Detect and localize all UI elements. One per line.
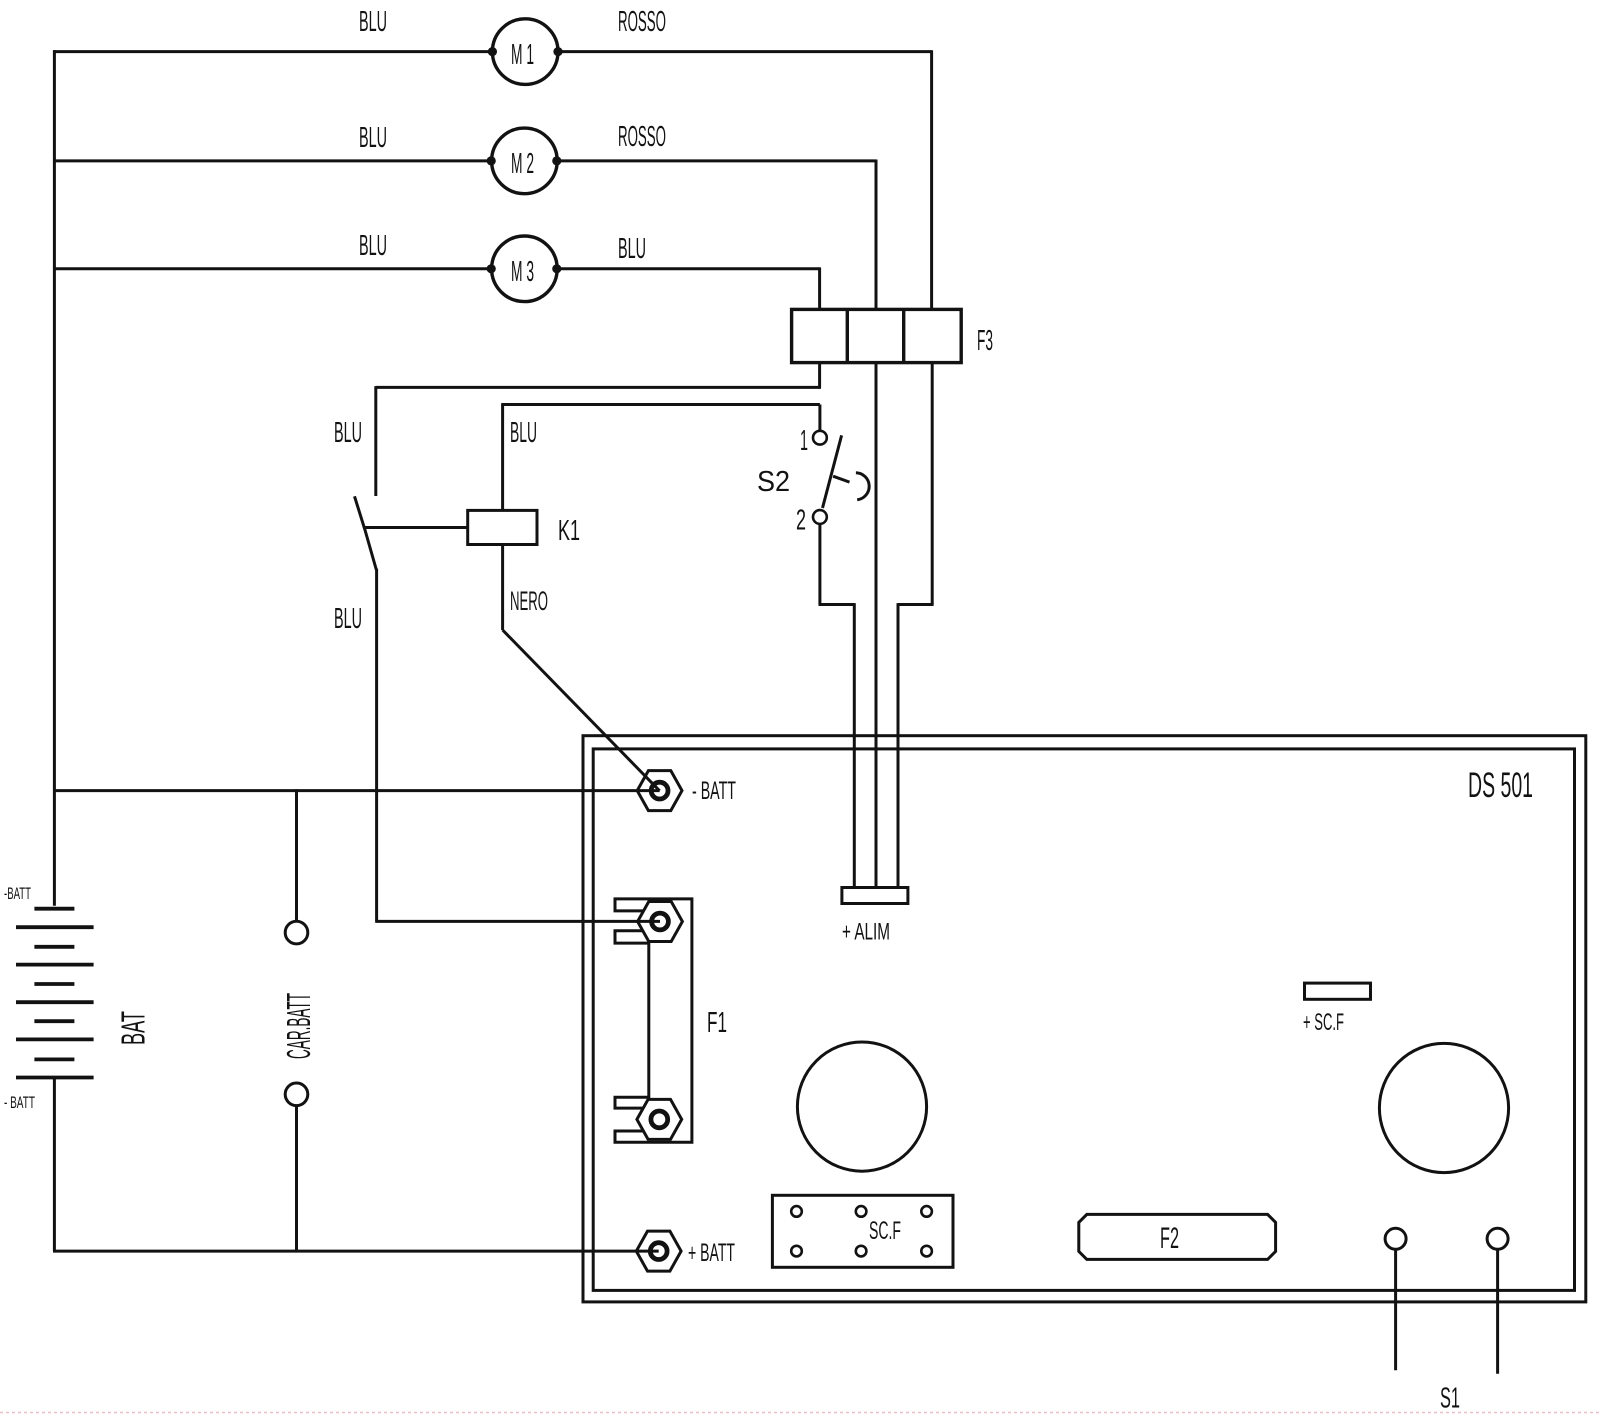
wire: M2 left (BLU) <box>53 159 491 162</box>
K1 contact blade <box>355 496 377 570</box>
wire: F3 cell1 bottom stub <box>818 363 821 388</box>
wire: CAR.BATT upper <box>295 789 298 921</box>
svg-text:NERO: NERO <box>510 586 548 616</box>
svg-text:CAR.BATT: CAR.BATT <box>280 993 317 1059</box>
svg-text:ROSSO: ROSSO <box>618 6 666 38</box>
DS 501 unit box outer border <box>583 736 1586 1302</box>
motor M1 <box>488 19 563 85</box>
wire: M3 right (BLU) <box>557 267 820 270</box>
svg-text:BLU: BLU <box>618 233 646 265</box>
DS 501 unit box inner border <box>593 749 1574 1291</box>
battery BAT <box>16 909 94 1078</box>
svg-text:F3: F3 <box>977 325 993 357</box>
relay coil K1 <box>468 510 537 544</box>
wire: contact lower vertical <box>375 569 378 922</box>
wire: K1 coil top vertical <box>501 405 504 511</box>
motor M3 <box>487 236 562 302</box>
CAR.BATT upper circle <box>285 921 308 944</box>
wire: bottom bus to +BATT <box>53 1250 659 1253</box>
svg-text:SC.F: SC.F <box>869 1217 901 1245</box>
S1 right button circle <box>1487 1228 1508 1249</box>
svg-text:- BATT: - BATT <box>4 1093 35 1112</box>
motor M2 <box>487 128 562 194</box>
wire: NERO diagonal to -BATT terminal <box>503 630 660 791</box>
wire: left bus vertical <box>53 50 56 906</box>
S2 actuator arc <box>856 473 869 500</box>
wire: contact to K1 coil <box>364 526 468 529</box>
wire: M3 drop to F3 cell 1 <box>818 267 821 309</box>
wire: down to +ALIM <box>853 603 856 888</box>
svg-text:BLU: BLU <box>359 6 387 38</box>
wire: M1 right (ROSSO) <box>558 50 932 53</box>
wire: horizontal to K1 contact <box>376 386 821 389</box>
svg-text:M 1: M 1 <box>511 39 534 71</box>
wire: S1 right lead <box>1496 1249 1499 1374</box>
wire: M2 right (ROSSO) <box>557 159 876 162</box>
svg-text:S1: S1 <box>1440 1383 1460 1415</box>
wire: faint scan line at sheet bottom <box>0 1412 1600 1414</box>
svg-text:BLU: BLU <box>359 122 387 154</box>
svg-text:BLU: BLU <box>334 417 362 449</box>
svg-text:BAT: BAT <box>115 1011 152 1045</box>
S2 terminal 1 circle <box>813 431 827 445</box>
wire: jog left <box>898 603 934 606</box>
wire: F3 cell2 down to +ALIM <box>875 363 878 889</box>
speaker hole circle right <box>1379 1043 1508 1172</box>
fuse F2 (chamfered slot) <box>1079 1214 1276 1259</box>
wire: M3 left (BLU) <box>53 267 491 270</box>
wire: K1 coil bottom (NERO) <box>501 545 504 631</box>
wire: M2 drop to F3 cell 2 <box>875 160 878 310</box>
svg-text:2: 2 <box>796 505 806 537</box>
svg-text:+ ALIM: + ALIM <box>842 919 890 946</box>
switch S2 <box>813 431 869 524</box>
svg-text:M 3: M 3 <box>511 256 534 288</box>
svg-text:- BATT: - BATT <box>692 777 736 805</box>
svg-text:BLU: BLU <box>510 417 537 449</box>
svg-text:+ SC.F: + SC.F <box>1303 1009 1344 1036</box>
terminal -BATT (hex stud) <box>637 771 682 811</box>
speaker hole circle left <box>797 1042 926 1171</box>
wire: S1 left lead <box>1394 1249 1397 1370</box>
wire: down to +ALIM <box>897 603 900 888</box>
wire: battery bottom vertical <box>53 1078 56 1252</box>
connector block SC.F <box>772 1195 953 1267</box>
wire: S2 terminal 1 drop <box>818 405 821 431</box>
fuse block F3 <box>792 309 962 362</box>
svg-text:M 2: M 2 <box>511 148 534 180</box>
terminal +BATT (hex stud) <box>636 1231 681 1271</box>
S1 left button circle <box>1385 1228 1406 1249</box>
svg-text:BLU: BLU <box>334 603 362 635</box>
S2 actuator tie <box>833 476 849 482</box>
wire: drop to contact fixed end <box>374 386 377 496</box>
svg-text:+ BATT: + BATT <box>688 1239 735 1267</box>
svg-text:BLU: BLU <box>359 230 387 262</box>
svg-text:S2: S2 <box>757 466 790 498</box>
wire: horizontal to S2 terminal 1 <box>501 403 820 406</box>
wire: CAR.BATT lower <box>295 1106 298 1253</box>
svg-text:1: 1 <box>800 425 808 457</box>
svg-text:F2: F2 <box>1160 1222 1179 1255</box>
svg-text:K1: K1 <box>558 515 580 547</box>
svg-text:-BATT: -BATT <box>4 884 31 903</box>
S2 blade <box>823 435 842 508</box>
fuse holder F1 outline <box>615 899 692 1142</box>
wire: horizontal to F1 upper terminal <box>375 920 660 923</box>
terminal bar +ALIM <box>842 888 908 904</box>
wire: F3 cell3 bottom <box>931 363 934 605</box>
S2 terminal 2 circle <box>813 510 827 524</box>
connector +SC.F <box>1305 983 1371 999</box>
F1 upper terminal (hex stud) <box>638 902 683 942</box>
wire: M1 drop to F3 cell 3 <box>930 50 933 309</box>
wire: jog right <box>819 603 855 606</box>
svg-text:DS 501: DS 501 <box>1468 766 1533 805</box>
wire: S2 terminal 2 down <box>818 524 821 605</box>
svg-text:ROSSO: ROSSO <box>618 121 666 153</box>
F1 lower terminal (hex stud) <box>637 1099 682 1139</box>
wire: battery negative to -BATT terminal <box>53 789 660 792</box>
svg-text:F1: F1 <box>707 1007 727 1039</box>
wire: M1 left (BLU) <box>53 50 492 53</box>
CAR.BATT lower circle <box>285 1083 308 1106</box>
